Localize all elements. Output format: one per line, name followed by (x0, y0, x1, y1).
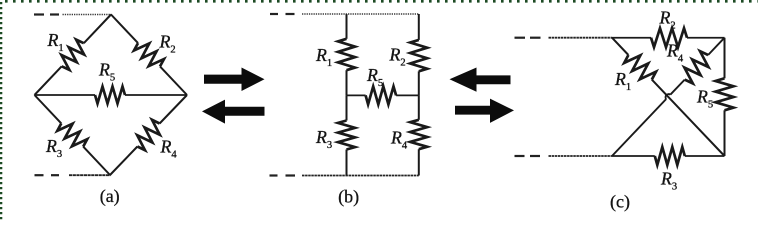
resistor R5: middle horizontal branch of (b) (347, 86, 419, 104)
resistor R3: bottom horizontal branch of (c) from bottom-left node to bottom-right corner (612, 147, 725, 165)
arrow: thick left-pointing arrow between (a) and (b) (202, 100, 265, 124)
resistor R3: branch from left node to bottom node of (a) (35, 95, 111, 175)
arrow: thick right-pointing arrow between (a) and (b) (204, 68, 265, 92)
resistor R2: top horizontal branch of (c) from top-left node to top-right corner (612, 28, 725, 47)
arrow: thick left-pointing arrow between (b) and (c) (450, 68, 511, 92)
resistor R1: diagonal branch of (c) from top-left node to bottom-right corner (612, 38, 725, 156)
resistor R2: upper right vertical branch of (b) (410, 14, 427, 95)
wire: bottom lead of (b), dashed segments then bottom rail (270, 174, 419, 176)
resistor R1: branch from left node to top node of (a) (35, 15, 112, 96)
resistor R1: upper left vertical branch of (b) (338, 14, 355, 95)
resistor R5: right vertical branch of (c) (716, 38, 734, 156)
wire: top lead of (c), dashed then line to top-left node (515, 37, 613, 39)
svg-text:(a): (a) (100, 186, 120, 207)
wire: bottom lead of bridge (a), dashed then line into bottom node (35, 174, 111, 176)
svg-text:(c): (c) (610, 192, 630, 213)
wire: bottom lead of (c), dashed then line to bottom-left node (515, 155, 613, 157)
arrow: thick right-pointing arrow between (b) and (c) (455, 99, 514, 123)
resistor R2: branch from top node to right node of (a) (111, 15, 187, 96)
resistor R4: diagonal branch of (c) from bottom-left node to top-right corner, with hop over the other diagonal (612, 38, 725, 156)
wire: top lead of bridge (a), dashed then thin line into top node (34, 13, 112, 15)
resistor R4: lower right vertical branch of (b) (410, 95, 427, 175)
resistor R5: middle horizontal branch of (a) between left and right nodes (35, 87, 188, 104)
resistor R4: branch from bottom node to right node of (a) (110, 95, 187, 175)
resistor R3: lower left vertical branch of (b) (338, 95, 355, 175)
svg-text:(b): (b) (338, 187, 359, 208)
wire: top lead of (b), dashed segments then top rail (270, 13, 419, 15)
